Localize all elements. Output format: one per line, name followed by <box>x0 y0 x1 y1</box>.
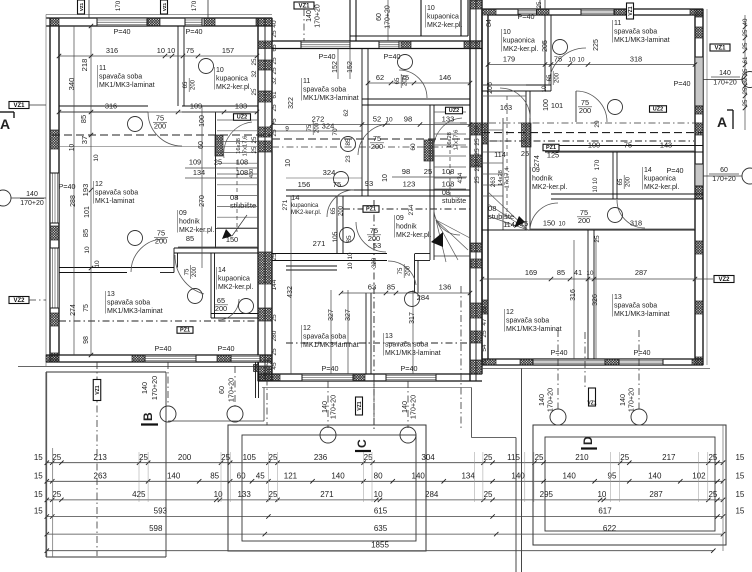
svg-text:157: 157 <box>222 46 234 55</box>
svg-text:spavača soba: spavača soba <box>303 334 346 341</box>
svg-text:75: 75 <box>185 268 191 275</box>
svg-text:MK2-ker.pl.: MK2-ker.pl. <box>644 184 679 191</box>
svg-text:11: 11 <box>614 20 621 27</box>
svg-text:P=40: P=40 <box>322 364 339 373</box>
svg-text:95: 95 <box>608 471 617 480</box>
svg-text:P=40: P=40 <box>319 52 336 61</box>
svg-text:VZ1: VZ1 <box>162 2 167 11</box>
svg-text:25: 25 <box>742 87 749 94</box>
svg-text:10: 10 <box>542 85 548 92</box>
svg-text:UZ2: UZ2 <box>653 107 663 113</box>
svg-text:12: 12 <box>506 309 514 316</box>
svg-text:304: 304 <box>421 453 435 462</box>
svg-text:25: 25 <box>269 453 278 462</box>
svg-text:60: 60 <box>720 167 728 174</box>
svg-text:434: 434 <box>457 172 464 183</box>
svg-text:170: 170 <box>191 0 198 11</box>
svg-text:41: 41 <box>574 268 582 277</box>
svg-text:B: B <box>141 412 155 421</box>
svg-text:326: 326 <box>592 294 599 306</box>
svg-text:P=40: P=40 <box>155 344 172 353</box>
svg-text:12: 12 <box>95 181 103 188</box>
svg-text:150: 150 <box>543 219 555 228</box>
svg-text:100: 100 <box>588 141 600 150</box>
svg-text:105: 105 <box>332 231 339 242</box>
svg-text:200: 200 <box>192 266 198 277</box>
svg-text:25: 25 <box>139 453 148 462</box>
svg-text:25: 25 <box>214 158 222 167</box>
svg-text:VZ1: VZ1 <box>628 6 634 15</box>
svg-text:170+20: 170+20 <box>329 395 338 419</box>
svg-text:25: 25 <box>251 58 258 65</box>
svg-text:10: 10 <box>347 252 354 259</box>
svg-text:spavača soba: spavača soba <box>99 74 142 81</box>
svg-text:133: 133 <box>237 490 251 499</box>
svg-text:25: 25 <box>474 148 481 156</box>
svg-text:25: 25 <box>535 453 544 462</box>
svg-text:spavača soba: spavača soba <box>614 29 657 36</box>
svg-text:25: 25 <box>271 30 278 38</box>
svg-text:1855: 1855 <box>371 541 389 550</box>
svg-text:85: 85 <box>210 471 219 480</box>
svg-text:140: 140 <box>140 382 149 394</box>
svg-text:14: 14 <box>218 267 226 274</box>
svg-text:25: 25 <box>481 358 488 366</box>
svg-text:287: 287 <box>635 268 647 277</box>
svg-text:31: 31 <box>267 367 274 374</box>
svg-text:123: 123 <box>403 180 416 189</box>
svg-text:200: 200 <box>579 106 591 115</box>
svg-text:25: 25 <box>364 453 373 462</box>
svg-text:170+20: 170+20 <box>315 4 322 28</box>
svg-text:hodnik: hodnik <box>179 219 200 226</box>
svg-text:271: 271 <box>313 239 326 248</box>
svg-text:225: 225 <box>593 39 600 51</box>
svg-text:14x28: 14x28 <box>498 170 504 186</box>
svg-text:236: 236 <box>314 453 328 462</box>
svg-text:170: 170 <box>594 159 601 170</box>
svg-text:70: 70 <box>332 128 339 136</box>
svg-text:327: 327 <box>345 309 352 321</box>
svg-text:170+20: 170+20 <box>227 378 236 402</box>
svg-text:kupaonica: kupaonica <box>291 203 319 209</box>
svg-text:hodnik: hodnik <box>396 224 417 231</box>
svg-text:146: 146 <box>439 73 451 82</box>
svg-text:12: 12 <box>303 325 311 332</box>
svg-text:108: 108 <box>442 180 455 189</box>
svg-text:25: 25 <box>251 146 258 153</box>
svg-text:10: 10 <box>559 221 566 228</box>
svg-text:A: A <box>0 116 10 132</box>
svg-text:16x28: 16x28 <box>447 132 453 148</box>
svg-text:323: 323 <box>371 257 378 268</box>
svg-text:25: 25 <box>484 490 493 499</box>
svg-text:170+20: 170+20 <box>713 80 737 87</box>
svg-text:10: 10 <box>385 117 393 124</box>
svg-text:200: 200 <box>155 237 167 246</box>
svg-text:100: 100 <box>543 99 550 111</box>
svg-text:25: 25 <box>620 453 629 462</box>
svg-text:170+20: 170+20 <box>150 376 159 400</box>
svg-text:10: 10 <box>503 29 511 36</box>
svg-text:75: 75 <box>307 124 313 131</box>
svg-text:60: 60 <box>217 386 226 394</box>
svg-text:98: 98 <box>402 167 410 176</box>
svg-text:316: 316 <box>570 289 577 301</box>
svg-text:140: 140 <box>562 471 576 480</box>
svg-text:432: 432 <box>287 286 294 298</box>
svg-text:25: 25 <box>271 104 278 112</box>
svg-text:25: 25 <box>708 453 717 462</box>
svg-text:13: 13 <box>614 294 622 301</box>
svg-text:318: 318 <box>630 55 642 64</box>
svg-text:115: 115 <box>507 453 520 462</box>
svg-text:P=40: P=40 <box>518 12 535 21</box>
svg-text:10: 10 <box>285 159 292 167</box>
svg-text:271: 271 <box>320 490 334 499</box>
svg-text:25: 25 <box>594 235 601 243</box>
svg-text:10: 10 <box>427 5 435 12</box>
svg-text:VZ1: VZ1 <box>357 401 363 410</box>
svg-text:kupaonica: kupaonica <box>503 38 535 45</box>
svg-text:75: 75 <box>398 267 404 274</box>
svg-text:93: 93 <box>365 179 373 188</box>
svg-text:25: 25 <box>267 357 274 364</box>
svg-text:25: 25 <box>474 176 481 184</box>
svg-text:263: 263 <box>490 176 497 187</box>
svg-text:PZ1: PZ1 <box>366 207 376 213</box>
svg-text:25: 25 <box>521 149 529 158</box>
svg-text:VZ1: VZ1 <box>13 103 25 109</box>
svg-text:65: 65 <box>618 178 624 185</box>
svg-text:105: 105 <box>243 453 257 462</box>
svg-text:spavača soba: spavača soba <box>506 318 549 325</box>
svg-text:280: 280 <box>271 330 278 341</box>
svg-text:10: 10 <box>374 490 383 499</box>
svg-text:193: 193 <box>81 184 90 197</box>
svg-text:322: 322 <box>288 97 295 109</box>
svg-text:MK1/MK3-laminat: MK1/MK3-laminat <box>614 311 670 318</box>
svg-text:140: 140 <box>331 471 345 480</box>
svg-text:63: 63 <box>368 283 376 292</box>
svg-text:101: 101 <box>551 101 563 110</box>
svg-text:108: 108 <box>442 167 455 176</box>
svg-text:206: 206 <box>487 82 494 94</box>
svg-text:100: 100 <box>199 115 206 127</box>
svg-text:P=40: P=40 <box>114 27 131 36</box>
svg-text:213: 213 <box>94 453 108 462</box>
svg-text:108: 108 <box>236 158 248 167</box>
svg-text:287: 287 <box>649 490 663 499</box>
svg-text:75: 75 <box>624 141 632 150</box>
svg-text:152: 152 <box>347 61 354 73</box>
svg-text:10: 10 <box>93 154 100 162</box>
svg-text:80: 80 <box>374 471 383 480</box>
svg-text:270: 270 <box>199 195 206 207</box>
svg-text:25: 25 <box>481 306 488 314</box>
svg-text:25: 25 <box>742 42 749 49</box>
svg-text:60: 60 <box>376 13 383 21</box>
svg-text:144: 144 <box>271 279 278 290</box>
svg-text:25: 25 <box>271 253 278 261</box>
svg-text:13: 13 <box>385 333 393 340</box>
svg-text:140: 140 <box>648 471 662 480</box>
svg-text:170+20: 170+20 <box>20 200 44 207</box>
svg-text:593: 593 <box>154 507 168 516</box>
svg-text:179: 179 <box>503 55 515 64</box>
svg-text:10: 10 <box>94 260 101 268</box>
svg-text:25: 25 <box>271 314 278 322</box>
svg-text:25: 25 <box>221 453 230 462</box>
svg-text:MK1/MK3-laminat: MK1/MK3-laminat <box>107 308 163 315</box>
svg-text:25: 25 <box>474 126 481 134</box>
svg-text:65: 65 <box>331 207 337 214</box>
svg-text:spavača soba: spavača soba <box>95 190 138 197</box>
svg-text:340: 340 <box>67 78 76 91</box>
svg-text:hodnik: hodnik <box>532 176 553 183</box>
svg-text:25: 25 <box>52 490 61 499</box>
svg-text:140: 140 <box>167 471 181 480</box>
svg-text:295: 295 <box>540 490 554 499</box>
svg-text:09: 09 <box>396 215 404 222</box>
svg-text:318: 318 <box>630 219 642 228</box>
svg-text:P=40: P=40 <box>401 364 418 373</box>
svg-text:284: 284 <box>417 293 430 302</box>
svg-text:598: 598 <box>149 524 163 533</box>
svg-text:60: 60 <box>237 471 246 480</box>
svg-text:25: 25 <box>52 453 61 462</box>
svg-text:140: 140 <box>412 471 426 480</box>
svg-text:150: 150 <box>226 235 238 244</box>
svg-text:54: 54 <box>481 344 488 352</box>
svg-text:114: 114 <box>494 150 506 159</box>
svg-text:170+20: 170+20 <box>409 395 418 419</box>
svg-text:284: 284 <box>425 490 439 499</box>
svg-text:85: 85 <box>557 268 565 277</box>
svg-text:25: 25 <box>424 167 432 176</box>
svg-text:25: 25 <box>708 490 717 499</box>
svg-text:85: 85 <box>186 234 194 243</box>
svg-text:205: 205 <box>542 40 549 52</box>
svg-text:A: A <box>717 114 727 130</box>
svg-text:P=40: P=40 <box>667 166 684 175</box>
svg-text:10 10: 10 10 <box>593 177 599 193</box>
svg-text:85: 85 <box>387 283 395 292</box>
svg-text:25: 25 <box>251 88 258 95</box>
svg-text:143: 143 <box>660 141 672 150</box>
svg-text:85: 85 <box>346 235 353 243</box>
svg-text:53: 53 <box>373 241 381 250</box>
svg-text:61: 61 <box>742 56 749 63</box>
svg-text:MK2-ker.pl.: MK2-ker.pl. <box>218 284 253 291</box>
svg-text:VZ2: VZ2 <box>718 277 730 283</box>
svg-text:15: 15 <box>34 471 43 480</box>
svg-text:25: 25 <box>251 136 258 143</box>
svg-text:15: 15 <box>34 453 43 462</box>
svg-text:156: 156 <box>298 180 311 189</box>
svg-text:10: 10 <box>578 57 585 64</box>
svg-text:109: 109 <box>190 102 202 111</box>
svg-text:D: D <box>581 436 595 445</box>
svg-text:140: 140 <box>719 70 731 77</box>
svg-text:10: 10 <box>347 262 354 269</box>
svg-text:288: 288 <box>70 195 77 207</box>
svg-text:spavača soba: spavača soba <box>385 342 428 349</box>
svg-text:10: 10 <box>69 144 76 152</box>
svg-text:15: 15 <box>735 490 744 499</box>
svg-text:spavača soba: spavača soba <box>107 300 150 307</box>
svg-text:VZ2: VZ2 <box>13 298 25 304</box>
svg-text:11: 11 <box>99 65 106 72</box>
svg-text:MK1/MK3-laminat: MK1/MK3-laminat <box>303 95 359 102</box>
svg-text:85: 85 <box>79 115 88 123</box>
svg-text:200: 200 <box>191 79 197 90</box>
svg-text:200: 200 <box>406 265 412 276</box>
svg-text:108: 108 <box>236 168 248 177</box>
svg-text:25: 25 <box>269 490 278 499</box>
svg-text:P=40: P=40 <box>186 27 203 36</box>
svg-text:10: 10 <box>597 490 606 499</box>
svg-text:109: 109 <box>189 158 201 167</box>
svg-text:MK2-ker.pl.: MK2-ker.pl. <box>396 232 431 239</box>
svg-text:MK2-ker.pl.: MK2-ker.pl. <box>179 227 214 234</box>
svg-text:133: 133 <box>442 115 455 124</box>
svg-text:62: 62 <box>343 109 350 117</box>
svg-text:134: 134 <box>193 168 205 177</box>
svg-text:40: 40 <box>271 20 278 28</box>
svg-text:09: 09 <box>179 210 187 217</box>
svg-text:10: 10 <box>382 174 389 182</box>
svg-text:327: 327 <box>328 309 335 321</box>
svg-text:200: 200 <box>555 72 561 83</box>
svg-text:210: 210 <box>575 453 589 462</box>
svg-text:200: 200 <box>315 122 321 133</box>
svg-text:200: 200 <box>154 122 166 131</box>
svg-text:08: 08 <box>442 190 450 197</box>
svg-text:25: 25 <box>271 67 278 75</box>
svg-text:15: 15 <box>34 490 43 499</box>
svg-text:MK2-ker.pl.: MK2-ker.pl. <box>503 46 538 53</box>
svg-text:UZ2: UZ2 <box>237 115 247 121</box>
svg-text:P=40: P=40 <box>634 348 651 357</box>
svg-text:170+20: 170+20 <box>546 388 555 412</box>
svg-text:45: 45 <box>256 471 265 480</box>
svg-text:200: 200 <box>371 142 383 151</box>
svg-text:25: 25 <box>742 29 749 36</box>
svg-text:75: 75 <box>554 55 562 64</box>
svg-text:25: 25 <box>271 129 278 137</box>
svg-text:10: 10 <box>214 490 223 499</box>
svg-text:125: 125 <box>547 151 559 160</box>
svg-text:102: 102 <box>692 471 706 480</box>
svg-text:274: 274 <box>534 155 541 167</box>
svg-text:169: 169 <box>525 268 537 277</box>
svg-text:MK1-laminat: MK1-laminat <box>95 198 134 205</box>
svg-text:PZ1: PZ1 <box>180 328 190 334</box>
svg-text:UZ2: UZ2 <box>449 108 459 114</box>
svg-text:spavača soba: spavača soba <box>303 87 346 94</box>
svg-text:200: 200 <box>178 453 192 462</box>
svg-text:25: 25 <box>536 1 543 8</box>
svg-text:kupaonica: kupaonica <box>216 76 248 83</box>
svg-text:615: 615 <box>374 507 388 516</box>
svg-text:10 10: 10 10 <box>157 46 176 55</box>
svg-text:VZ1: VZ1 <box>714 45 726 51</box>
svg-text:29: 29 <box>594 120 601 128</box>
svg-text:200: 200 <box>215 304 227 313</box>
svg-text:217: 217 <box>662 453 676 462</box>
svg-text:MK1/MK3-laminat: MK1/MK3-laminat <box>99 82 155 89</box>
svg-text:10: 10 <box>587 270 594 277</box>
svg-text:430: 430 <box>249 169 255 178</box>
svg-text:170: 170 <box>115 0 122 11</box>
svg-text:170+20: 170+20 <box>627 388 636 412</box>
svg-text:25: 25 <box>271 348 278 356</box>
svg-text:VZ1: VZ1 <box>95 385 101 394</box>
svg-text:62: 62 <box>376 73 384 82</box>
svg-text:kupaonica: kupaonica <box>644 176 676 183</box>
svg-text:271: 271 <box>282 199 289 210</box>
svg-text:14: 14 <box>644 167 652 174</box>
svg-text:617: 617 <box>598 507 612 516</box>
svg-text:25: 25 <box>474 138 481 146</box>
svg-text:25: 25 <box>742 68 749 75</box>
svg-text:85: 85 <box>81 229 90 237</box>
svg-text:133: 133 <box>235 102 247 111</box>
svg-text:65: 65 <box>183 81 189 88</box>
svg-text:MK1/MK3-laminat: MK1/MK3-laminat <box>614 37 670 44</box>
svg-text:200: 200 <box>339 205 345 216</box>
svg-text:10: 10 <box>84 246 91 254</box>
svg-text:MK2-ker.pl.: MK2-ker.pl. <box>427 22 462 29</box>
svg-text:VZ1: VZ1 <box>79 2 84 11</box>
svg-text:kupaonica: kupaonica <box>427 14 459 21</box>
svg-text:252: 252 <box>474 160 481 171</box>
svg-text:140: 140 <box>26 191 38 198</box>
svg-text:stubište: stubište <box>230 201 256 210</box>
svg-text:10: 10 <box>569 57 576 64</box>
svg-text:P=40: P=40 <box>551 348 568 357</box>
svg-text:25: 25 <box>520 219 528 228</box>
svg-text:16x28: 16x28 <box>236 138 242 154</box>
svg-text:P=40: P=40 <box>218 344 235 353</box>
svg-text:316: 316 <box>106 46 118 55</box>
svg-text:218: 218 <box>80 59 89 72</box>
svg-text:P=40: P=40 <box>674 79 691 88</box>
svg-text:15: 15 <box>735 507 744 516</box>
svg-text:84: 84 <box>486 19 493 27</box>
svg-text:25: 25 <box>271 57 278 65</box>
svg-text:17x17,6: 17x17,6 <box>454 130 460 151</box>
svg-text:85: 85 <box>345 138 352 146</box>
svg-text:32: 32 <box>271 77 278 85</box>
svg-text:65: 65 <box>547 74 553 81</box>
svg-text:47: 47 <box>481 318 488 326</box>
svg-text:635: 635 <box>374 524 388 533</box>
svg-text:61: 61 <box>271 91 278 99</box>
svg-text:17x17,4: 17x17,4 <box>505 167 511 188</box>
svg-text:10: 10 <box>216 67 224 74</box>
svg-text:60: 60 <box>410 143 417 151</box>
svg-text:317: 317 <box>409 312 416 324</box>
svg-text:15: 15 <box>735 471 744 480</box>
svg-text:114: 114 <box>503 220 515 229</box>
svg-text:VZ1: VZ1 <box>298 3 310 9</box>
svg-text:MK2-ker.pl.: MK2-ker.pl. <box>532 184 567 191</box>
svg-text:25: 25 <box>484 453 493 462</box>
svg-text:140: 140 <box>306 10 313 22</box>
svg-text:25: 25 <box>481 330 488 338</box>
